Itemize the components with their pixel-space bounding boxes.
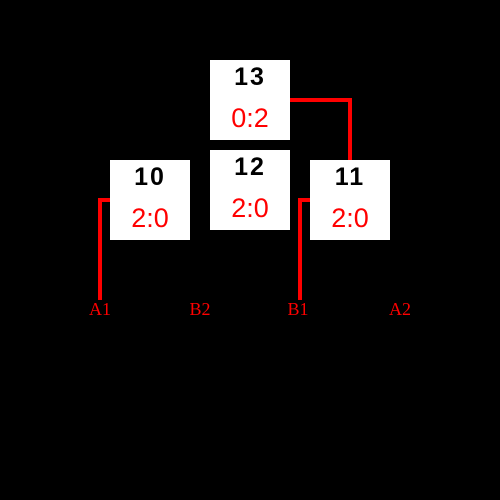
- node label B1: [268, 299, 328, 319]
- match box 12: [210, 150, 290, 230]
- match box 10: [110, 160, 190, 240]
- wire: box 11 left stub: [298, 198, 310, 202]
- node label B2: [170, 299, 230, 319]
- wire: box 10 left stub: [98, 198, 110, 202]
- match box 11: [310, 160, 390, 240]
- node label A2: [370, 299, 430, 319]
- wire: vertical down to label B1: [298, 198, 302, 300]
- node label A1: [70, 299, 130, 319]
- wire: vertical down into box 11 top: [348, 98, 352, 160]
- wire: vertical down to label A1: [98, 198, 102, 300]
- wire: box 13 right horizontal: [290, 98, 352, 102]
- match box 13: [210, 60, 290, 140]
